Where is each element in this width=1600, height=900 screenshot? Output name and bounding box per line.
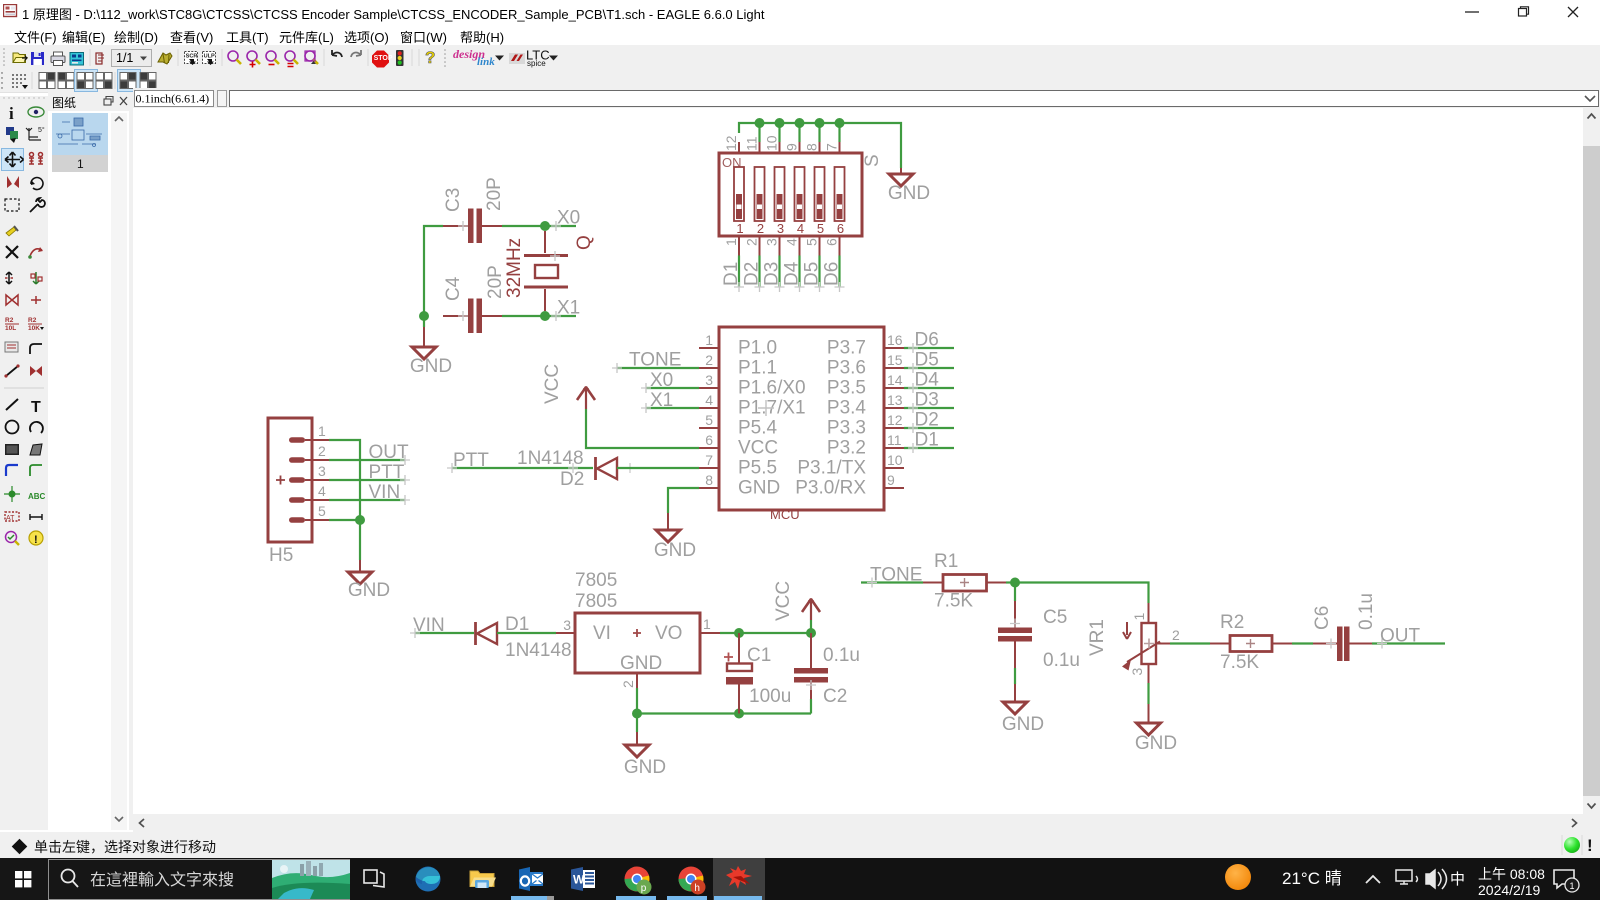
wire: PTT net to diode D2 <box>452 467 593 469</box>
supply VCC at MCU pin6 <box>542 364 699 448</box>
wire: X1 to MCU pin4 <box>646 407 699 409</box>
wire: DIP pin stubs top <box>760 123 840 142</box>
net label X0 <box>551 221 561 231</box>
use library <box>158 53 172 64</box>
row14: circle, arc <box>6 421 19 434</box>
MCU left pin stubs <box>699 348 719 488</box>
wire: DIP switch top bus to GND <box>739 123 901 168</box>
row2: display, dimension <box>6 127 14 135</box>
sch/brd toggle <box>96 53 102 64</box>
LTC spice <box>509 53 525 64</box>
wire: H5 pin1 to pin5 vertical, to GND <box>329 440 360 560</box>
svg-text:0.1inch(6.61.4): 0.1inch(6.61.4) <box>136 92 210 106</box>
wire: VIN net to D1 <box>415 632 474 634</box>
row3: move(selected), copy <box>2 149 24 171</box>
outlook <box>519 867 543 891</box>
thumbnail <box>52 113 108 155</box>
explorer <box>470 871 496 888</box>
svg-text:spice: spice <box>527 59 546 68</box>
svg-text:!: ! <box>34 534 38 546</box>
DIP switch S body <box>719 153 862 236</box>
row19: erc, errors <box>6 532 17 543</box>
svg-text:1: 1 <box>1570 881 1575 891</box>
MCU box <box>719 327 884 510</box>
wire: TONE to MCU pin2 <box>617 367 699 369</box>
row12: split, markup <box>6 366 18 376</box>
svg-text:1/1: 1/1 <box>116 51 133 65</box>
capacitor C6 0.1u <box>1312 593 1377 661</box>
wires: D1..D6 nets below DIP <box>739 256 840 288</box>
diode D1 1N4148 <box>476 614 572 661</box>
stop <box>372 51 389 68</box>
edge <box>416 867 441 892</box>
row4: mirror, rotate <box>7 176 19 188</box>
row6: smash <box>6 227 16 236</box>
wire: X0 to MCU pin3 <box>646 387 699 389</box>
taskbar icons <box>350 858 770 900</box>
regulator 7805 <box>563 570 711 688</box>
svg-text:STOP: STOP <box>374 55 393 62</box>
DIP bottom pin numbers <box>723 238 840 246</box>
svg-text:h: h <box>694 883 700 894</box>
wire: 7805 GND pin2 down <box>636 673 638 688</box>
crystal Q 32MHz <box>504 231 595 311</box>
window pane buttons <box>38 72 56 90</box>
traffic light <box>396 50 404 66</box>
svg-text:W: W <box>573 873 585 887</box>
search box <box>48 858 350 900</box>
wire: ground rail under 7805 <box>637 712 811 714</box>
grid btn <box>12 74 26 88</box>
svg-text:?: ? <box>425 48 435 67</box>
ground GND at VR1 <box>1135 704 1177 754</box>
ground GND at C5 <box>1002 668 1044 735</box>
wire: 7805 VO to VCC rail <box>700 632 720 634</box>
capacitor C4 <box>443 265 506 333</box>
svg-text:link: link <box>477 56 495 68</box>
svg-text:R2: R2 <box>5 317 14 324</box>
DIP switch bottom pins <box>739 236 840 256</box>
wire: TONE net to R1 <box>861 581 923 583</box>
net labels D6..D1 <box>915 330 940 451</box>
svg-text:1: 1 <box>77 157 84 171</box>
save <box>31 52 44 65</box>
wire: D1 to 7805 VI <box>497 632 556 634</box>
svg-text:ABC: ABC <box>28 492 46 501</box>
SCR <box>185 52 198 64</box>
ground GND at MCU pin8 <box>654 513 696 561</box>
wire: OUT net <box>1372 642 1445 644</box>
ground GND at crystal <box>410 316 452 377</box>
net labels D1..D6 <box>721 261 843 286</box>
net label X1 <box>551 311 561 321</box>
svg-text:10L: 10L <box>5 325 16 332</box>
separator <box>4 387 44 389</box>
MCU right pin stubs <box>884 348 904 488</box>
1/1 combo <box>112 50 152 67</box>
print <box>51 56 65 63</box>
ULP <box>203 52 216 64</box>
svg-text:2024/2/19: 2024/2/19 <box>1478 882 1540 898</box>
svg-text:10K: 10K <box>28 325 40 332</box>
row16: bus, net <box>6 465 18 476</box>
junction at crystal left rail bottom <box>419 311 429 321</box>
zoom icons <box>228 51 315 61</box>
start button <box>0 858 48 900</box>
diode D2 1N4148 <box>517 448 617 490</box>
resistor R1 7.5K <box>923 551 1006 612</box>
MCU pin names right <box>795 338 866 499</box>
connector H5 <box>268 418 329 566</box>
wire: C4 to X1 node <box>502 315 576 317</box>
wire: crystal left rail <box>424 226 443 316</box>
svg-text:ULP: ULP <box>204 54 215 60</box>
open <box>13 53 26 63</box>
DIP switch S pin numbers top <box>723 135 840 151</box>
wire: D2 to MCU pin7 <box>617 467 699 469</box>
row13: wire, text <box>6 399 18 410</box>
eagle active <box>713 858 765 900</box>
svg-text:AT: AT <box>6 515 15 522</box>
wire: H5 pin2 OUT <box>329 459 405 461</box>
wire: R2 to C6 <box>1292 642 1313 644</box>
capacitor C5 0.1u <box>998 583 1080 672</box>
row15: rect, polygon <box>5 444 19 455</box>
row11: technology, miter <box>5 342 18 352</box>
task view <box>364 870 384 887</box>
MCU origin cross <box>758 400 774 416</box>
word <box>571 867 595 891</box>
wire: VR1 pin3 to GND <box>1148 664 1150 683</box>
MCU pin names left <box>738 338 806 499</box>
junction dots on DIP bus <box>755 118 845 128</box>
trimmer VR1 <box>1087 603 1180 676</box>
svg-text:上午 08:08: 上午 08:08 <box>1478 866 1545 882</box>
svg-text:在這裡輸入文字來搜: 在這裡輸入文字來搜 <box>90 871 234 889</box>
row8: pinswap, paste <box>6 272 12 284</box>
supply VCC at 7805 <box>773 581 820 633</box>
undo/redo <box>332 50 342 57</box>
svg-text:T: T <box>31 399 41 416</box>
wire: C3 to X0 node <box>502 225 576 227</box>
wire: H5 pin5 <box>329 519 360 521</box>
row9: gateswap <box>6 295 18 305</box>
node X0 junction <box>540 221 550 231</box>
system tray <box>1210 858 1600 900</box>
ground GND at DIP <box>888 168 930 204</box>
svg-text:i: i <box>9 104 14 123</box>
wire: VR1 wiper to R2 <box>1156 643 1170 645</box>
capacitor C1 100u polarized <box>724 633 791 714</box>
svg-text:中: 中 <box>1450 871 1465 888</box>
chrome h <box>679 867 706 895</box>
row17: junction, label <box>9 491 16 498</box>
chrome p <box>625 867 652 895</box>
board icon <box>70 53 84 66</box>
svg-text:R2: R2 <box>28 317 37 324</box>
panel scrollbar <box>111 113 127 830</box>
wire: H5 pin4 VIN <box>329 499 405 501</box>
wire: H5 pin3 PTT <box>329 479 405 481</box>
MCU pin numbers <box>705 332 713 488</box>
ground GND at 7805 <box>624 714 666 779</box>
DIP switch position numbers <box>736 221 844 236</box>
row7: delete, ripup <box>6 246 18 258</box>
ground GND at H5 <box>348 560 390 601</box>
row18: attribute, dimension2 <box>5 512 19 521</box>
svg-text:21°C 晴: 21°C 晴 <box>1282 869 1342 888</box>
underline indicators <box>0 896 1600 900</box>
svg-text:SCR: SCR <box>186 54 198 60</box>
DIP switch slots with handles <box>734 167 845 221</box>
capacitor C2 0.1u <box>794 633 860 714</box>
node X1 junction <box>540 311 550 321</box>
row10: name/value <box>5 317 40 332</box>
row5: group, change <box>5 199 19 211</box>
svg-text:5°: 5° <box>38 126 45 134</box>
wire: R1 to VR1 <box>1006 581 1015 583</box>
wires: D6..D1 nets at MCU right <box>904 348 954 448</box>
capacitor C3 <box>443 177 505 243</box>
svg-text:!: ! <box>1587 836 1593 855</box>
svg-text:p: p <box>641 883 647 894</box>
wire: MCU pin8 to GND <box>668 488 699 513</box>
resistor R2 7.5K <box>1210 612 1292 673</box>
